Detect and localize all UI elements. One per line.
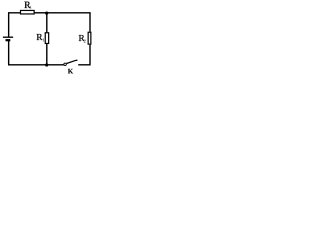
resistor R [21, 10, 35, 14]
battery long plate [3, 36, 13, 38]
wire: node A down to R1 [46, 13, 48, 32]
wire: R2 down to bottom-right corner and across to switch [78, 45, 90, 65]
svg-text:1: 1 [30, 4, 32, 9]
label R [24, 0, 32, 11]
battery short plate [6, 39, 11, 41]
wire: resistor R to node A [35, 12, 47, 14]
node A (top junction dot) [45, 12, 48, 15]
wire: switch terminal to node B [47, 64, 64, 66]
resistor R2 [88, 32, 91, 44]
label R1 [36, 32, 45, 42]
svg-text:K: K [68, 68, 74, 76]
resistor R1 [45, 33, 48, 44]
switch K terminal circle [64, 63, 67, 66]
switch K blade [67, 60, 78, 63]
node B (bottom junction dot) [45, 63, 48, 66]
label R2 [79, 33, 87, 44]
wire: node A to top-right corner [47, 12, 90, 32]
wire: R1 down to node B [46, 44, 48, 65]
wire: node B to bottom-left corner and up to battery [8, 40, 47, 65]
wire: left side top (battery + up to top-left corner, across to resistor R) [8, 13, 20, 37]
